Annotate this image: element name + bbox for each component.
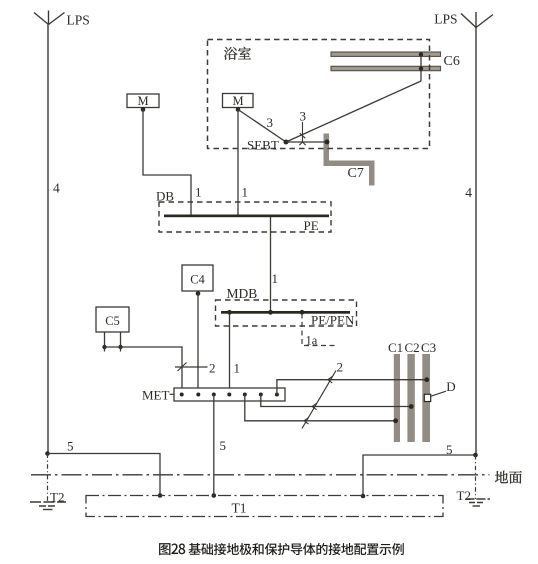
svg-text:1: 1 — [272, 271, 279, 286]
junction dots on PE/PEN busbar — [227, 310, 232, 315]
wire: M2 to DB — [237, 110, 239, 215]
svg-text:5: 5 — [67, 439, 74, 454]
conductor count tick with label 2 — [175, 363, 208, 372]
junction dot center wire to T1 — [212, 493, 217, 498]
MET terminal bar — [174, 388, 285, 401]
svg-text:C5: C5 — [105, 314, 120, 328]
svg-text:4: 4 — [53, 181, 60, 196]
svg-text:C6: C6 — [444, 54, 460, 69]
metal pipe C1 — [394, 354, 400, 442]
svg-text:5: 5 — [446, 442, 453, 457]
svg-text:C1: C1 — [388, 340, 403, 355]
caption 图28 基础接地极和保护导体的接地配置示例 — [159, 543, 170, 555]
junction dot right LPS at earth run — [473, 453, 478, 458]
svg-text:2: 2 — [337, 360, 344, 375]
wire: SEBT to C6 diagonal bonding conductor — [286, 81, 421, 142]
earth symbol T2 right — [466, 498, 491, 500]
earth electrode T2 right chain line — [475, 455, 477, 499]
main distribution board MDB dashed box — [216, 300, 357, 326]
svg-text:PE: PE — [304, 218, 319, 233]
wire: right LPS to T1 — [363, 455, 476, 496]
svg-text:C4: C4 — [190, 273, 205, 287]
svg-text:1: 1 — [195, 185, 202, 200]
wire: DB PE to MDB — [270, 217, 272, 311]
junction dot on C1 — [393, 418, 398, 423]
svg-text:M: M — [232, 94, 243, 108]
wire: C6 bonding drop — [420, 52, 422, 81]
metal pipe C7 — [324, 134, 375, 186]
svg-text:T1: T1 — [232, 501, 247, 516]
junction dot SEBT — [284, 140, 289, 145]
earth electrode T2 left chain line — [47, 454, 49, 504]
svg-text:T2: T2 — [457, 488, 471, 503]
wire: MET to foundation earth T1 conductor 5 — [213, 395, 215, 496]
junction dot on C3 — [424, 377, 429, 382]
svg-text:3: 3 — [300, 109, 307, 124]
dashed exit conductor 1a — [302, 314, 335, 346]
svg-text:C7: C7 — [348, 166, 364, 181]
appliance C5 box — [96, 307, 129, 332]
svg-text:LPS: LPS — [434, 12, 457, 27]
wire: right LPS down-conductor 4 — [475, 28, 477, 456]
distribution board DB dashed box — [159, 202, 331, 232]
earth symbol T2 left — [30, 501, 66, 503]
svg-text:1: 1 — [234, 361, 241, 376]
conductor count slash 2 across pipe bonding wires — [302, 371, 336, 429]
metal pipe C2 — [407, 354, 414, 442]
junction dot SEBT wire to C7 — [325, 140, 330, 145]
PE busbar in DB — [164, 215, 329, 218]
wire: M1 to DB — [143, 110, 191, 215]
wire: M2 to SEBT bonding conductor 3 — [238, 110, 286, 143]
svg-text:DB: DB — [156, 189, 174, 204]
junction dot under M2 — [236, 107, 241, 112]
antenna LPS left — [34, 11, 65, 25]
wire: left LPS to T1 — [48, 454, 160, 496]
junction dot C6 lower pipe — [419, 66, 423, 70]
metal pipe C6 lower — [331, 66, 441, 70]
svg-text:3: 3 — [267, 115, 274, 130]
svg-text:C3: C3 — [421, 340, 436, 355]
wire: MET to C2 pipe — [261, 395, 411, 407]
junction dot left LPS to earth run — [45, 451, 50, 456]
svg-text:SEBT: SEBT — [247, 138, 279, 153]
junction dot on T1 right — [361, 494, 366, 499]
bathroom dashed enclosure — [208, 40, 430, 149]
PE/PEN busbar in MDB — [221, 311, 350, 314]
svg-text:D: D — [446, 379, 455, 394]
wire: C4 to MET — [197, 294, 199, 389]
svg-text:C2: C2 — [405, 340, 420, 355]
junction dot on C2 — [409, 404, 414, 409]
metal pipe C6 upper — [331, 52, 441, 56]
motor M2 box — [223, 94, 254, 108]
svg-text:MET: MET — [142, 388, 170, 403]
motor M1 box — [127, 94, 159, 108]
wire: MET to C3 pipe — [277, 380, 427, 395]
svg-text:LPS: LPS — [67, 13, 90, 28]
wire: SEBT to C7 — [286, 141, 327, 143]
label bathroom 浴室 — [224, 47, 237, 60]
svg-text:2: 2 — [209, 361, 216, 376]
junction dot under M1 — [141, 107, 146, 112]
insulating piece D on C3 — [424, 394, 430, 401]
junction dot C6 upper pipe — [419, 52, 423, 56]
appliance C4 box — [182, 265, 213, 291]
svg-text:4: 4 — [465, 185, 472, 200]
svg-text:1a: 1a — [306, 334, 318, 348]
label ground surface 地面 — [495, 471, 508, 483]
wire: MDB to MET — [229, 314, 231, 389]
svg-text:PE/PEN: PE/PEN — [311, 313, 355, 328]
junction dot on T1 left — [158, 493, 163, 498]
svg-text:1: 1 — [242, 185, 249, 200]
foundation earth electrode T1 chain-line box — [86, 496, 443, 517]
svg-text:MDB: MDB — [227, 286, 258, 301]
junction dots C5 terminals — [102, 345, 106, 349]
metal pipe C3 — [422, 354, 430, 442]
antenna LPS right — [461, 12, 493, 28]
wire: left LPS down-conductor 4 — [47, 25, 49, 454]
ground surface chain line — [31, 474, 490, 476]
svg-text:M: M — [137, 94, 148, 108]
junction dots in MET bar — [180, 393, 184, 397]
wire: MET to C1 pipe — [245, 395, 396, 421]
junction dot under C4 — [196, 291, 201, 296]
wire: C5 to MET — [105, 347, 183, 388]
C5 terminal stubs — [105, 332, 121, 352]
svg-text:5: 5 — [220, 438, 227, 453]
